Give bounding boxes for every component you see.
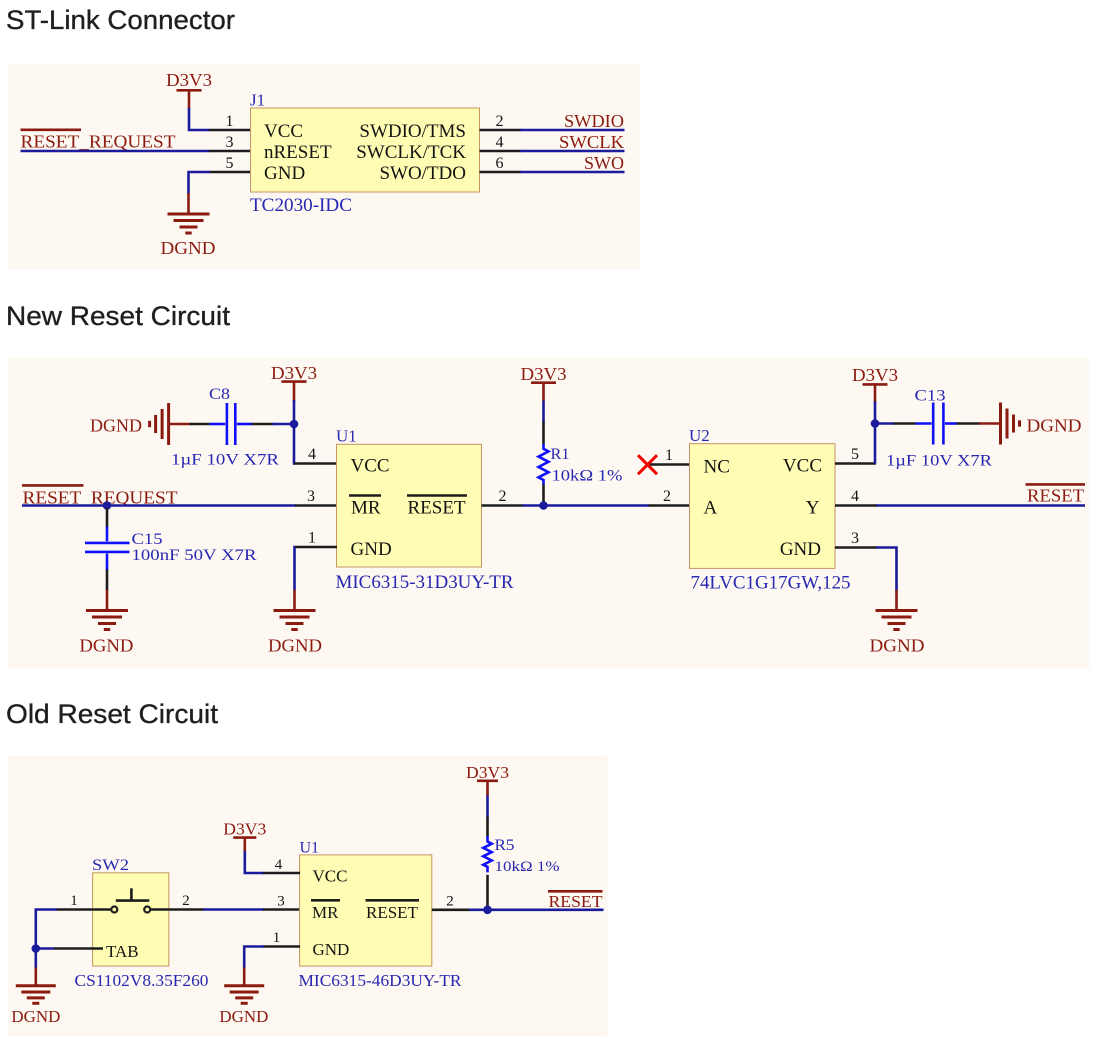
no-connect X on U2 pin 1 [638,455,657,474]
svg-text:100nF 50V X7R: 100nF 50V X7R [132,547,257,564]
ground DGND (under U2) [876,611,918,630]
power flag D3V3 (above C13) [852,365,898,403]
junction at C13 [871,419,880,428]
net label RESET (panel2) [1026,484,1086,505]
panel 3 background [8,756,608,1036]
power flag D3V3 (above R1) [521,364,567,402]
svg-text:DGND: DGND [219,1007,268,1026]
svg-text:3: 3 [307,488,315,505]
IC U2 box (74LVC1G17) [690,444,836,569]
wire: D3V3 down to junction [293,400,296,424]
svg-text:nRESET: nRESET [264,142,332,163]
svg-text:C15: C15 [132,531,163,548]
svg-text:DGND: DGND [90,416,142,436]
wire: pin 6 to SWO [480,171,625,174]
svg-text:4: 4 [275,857,283,873]
power flag D3V3 (above C8 junction) [271,363,317,401]
junction at D3V3/C8 [290,420,299,429]
wire: U1 pin 2 to junction [432,908,488,911]
svg-text:C8: C8 [209,386,230,403]
svg-text:SWO: SWO [584,153,624,173]
svg-text:SWDIO: SWDIO [564,111,624,131]
svg-text:4: 4 [308,446,316,463]
wire: RESET_REQUEST to pin 3 [21,150,252,153]
svg-text:TC2030-IDC: TC2030-IDC [250,195,352,216]
svg-text:D3V3: D3V3 [271,363,317,383]
svg-text:U2: U2 [689,426,710,445]
wire: U1 pin 1 to ground [244,947,300,986]
svg-text:1µF 10V X7R: 1µF 10V X7R [171,452,279,469]
net label RESET (panel3) [548,891,603,911]
svg-text:DGND: DGND [161,238,216,258]
svg-text:5: 5 [226,155,234,172]
IC U1 box (MIC6315 old) [300,855,432,966]
svg-text:3: 3 [851,530,859,547]
net label RESET_REQUEST [21,130,176,152]
wire: D3V3 to pin 1 [189,108,251,130]
svg-text:D3V3: D3V3 [466,763,509,782]
svg-text:4: 4 [496,134,504,151]
switch contacts and actuator [93,888,169,912]
svg-text:DGND: DGND [1027,416,1082,436]
svg-text:2: 2 [446,893,454,909]
svg-text:VCC: VCC [313,867,348,886]
svg-text:RESET: RESET [408,498,466,519]
switch SW2 box [93,873,169,966]
svg-text:U1: U1 [336,427,357,446]
wire: U2 pin 1 stub [650,463,690,466]
svg-text:1: 1 [273,930,281,946]
svg-text:VCC: VCC [264,121,303,142]
svg-text:DGND: DGND [11,1007,60,1026]
svg-text:2: 2 [496,113,504,130]
wire: C15 to ground [106,590,109,611]
svg-text:GND: GND [313,940,350,959]
wire: U2 pin 3 to ground [835,548,897,611]
svg-text:1: 1 [308,530,316,547]
capacitor C13 [875,388,992,470]
svg-text:RESET: RESET [549,892,604,911]
svg-text:MR: MR [312,903,339,922]
svg-text:New Reset Circuit: New Reset Circuit [6,301,231,331]
power flag D3V3 (panel1) [166,70,212,109]
capacitor C15 [85,508,257,591]
wire: junction down to ground [34,949,37,986]
svg-text:GND: GND [351,539,392,560]
svg-text:Old Reset Circuit: Old Reset Circuit [6,699,219,729]
panel 2 background [8,358,1090,669]
junction at R1 / reset net [539,501,548,510]
svg-text:1: 1 [226,113,234,130]
svg-text:3: 3 [226,134,234,151]
svg-text:VCC: VCC [351,456,390,477]
resistor R5 [483,796,559,908]
svg-text:SWCLK/TCK: SWCLK/TCK [356,142,466,163]
svg-text:D3V3: D3V3 [166,70,212,90]
svg-text:ST-Link Connector: ST-Link Connector [6,5,235,35]
wire: junction down to pin 4 [294,424,337,464]
wire: SW2 pin 2 to U1 pin 3 [169,908,300,911]
svg-text:RESET_REQUEST: RESET_REQUEST [21,132,176,152]
junction at R5 / RESET [483,906,492,915]
svg-text:4: 4 [851,488,859,505]
svg-text:5: 5 [851,446,859,463]
connector J1 box [251,108,480,192]
svg-text:R5: R5 [495,837,515,854]
svg-text:GND: GND [264,163,305,184]
ground DGND (under C15) [86,611,128,630]
wire: RESET_REQUEST to pin 3 [22,504,337,507]
ground DGND rotated (left of C8) [90,403,191,445]
wire: U2 pin 5 up to junction [835,424,876,464]
wire: D3V3 to U1 pin 4 [245,851,300,873]
junction at C15 [103,501,112,510]
svg-text:DGND: DGND [79,636,133,656]
svg-text:3: 3 [277,893,285,909]
svg-text:SWCLK: SWCLK [559,132,624,152]
ground DGND rotated (right of C13) [979,403,1082,445]
svg-text:MIC6315-46D3UY-TR: MIC6315-46D3UY-TR [299,971,463,990]
svg-text:U1: U1 [300,840,320,857]
svg-text:CS1102V8.35F260: CS1102V8.35F260 [75,971,209,990]
svg-text:2: 2 [499,488,507,505]
svg-text:D3V3: D3V3 [223,820,266,839]
svg-text:1µF 10V X7R: 1µF 10V X7R [886,453,992,470]
ground DGND (panel1) [168,214,210,233]
wire: pin 5 to ground [189,172,252,214]
svg-text:DGND: DGND [268,636,322,656]
svg-text:J1: J1 [250,91,265,110]
power flag D3V3 (above U1 VCC) [223,820,266,852]
svg-text:Y: Y [806,498,820,519]
power flag D3V3 (above R5) [466,763,509,797]
svg-text:GND: GND [780,539,821,560]
svg-text:VCC: VCC [783,456,822,477]
svg-text:2: 2 [182,893,190,909]
svg-text:TAB: TAB [106,942,139,961]
wire: D3V3 down to C13 junction [874,402,877,425]
svg-text:74LVC1G17GW,125: 74LVC1G17GW,125 [691,572,851,593]
wire: pin 2 to SWDIO [480,129,625,132]
ground DGND (under U1) [274,611,316,630]
svg-text:6: 6 [496,155,504,172]
capacitor C8 [171,386,279,469]
resistor R1 [539,401,623,504]
svg-text:SWO/TDO: SWO/TDO [379,163,466,184]
svg-text:10kΩ 1%: 10kΩ 1% [552,468,623,485]
wire: junction to RESET label [488,908,604,911]
wire: SW2 pin 1 to junction [36,910,93,949]
svg-text:MR: MR [351,498,381,519]
svg-text:MIC6315-31D3UY-TR: MIC6315-31D3UY-TR [336,572,514,593]
net label RESET_REQUEST (panel2) [22,485,178,507]
wire: pin 4 to SWCLK [480,150,625,153]
svg-text:A: A [704,498,718,519]
panel 1 background [8,64,640,271]
wire: C8 to junction [273,423,295,426]
svg-text:1: 1 [70,893,78,909]
ground DGND (under U1 panel3) [224,986,264,1004]
svg-text:D3V3: D3V3 [852,365,898,385]
ground DGND (under SW2) [16,986,56,1004]
wire: junction to TAB pin [36,947,103,950]
svg-text:1: 1 [665,447,673,464]
svg-text:R1: R1 [551,446,570,463]
wire: U1 pin 2 to U2 pin 2 [482,504,691,507]
junction at SW2/TAB [32,944,41,953]
wire: U1 pin 1 to ground [295,547,338,611]
svg-text:DGND: DGND [870,636,925,656]
svg-text:RESET: RESET [1027,486,1084,506]
IC U1 box (MIC6315) [337,444,482,567]
svg-text:NC: NC [704,457,730,478]
svg-text:SW2: SW2 [92,857,129,874]
svg-text:C13: C13 [915,388,946,405]
svg-text:SWDIO/TMS: SWDIO/TMS [359,121,466,142]
wire: U2 pin 4 to RESET [835,504,1085,507]
svg-text:RESET: RESET [366,903,419,922]
svg-text:D3V3: D3V3 [521,364,567,384]
svg-text:2: 2 [663,488,671,505]
svg-text:10kΩ 1%: 10kΩ 1% [495,859,560,875]
